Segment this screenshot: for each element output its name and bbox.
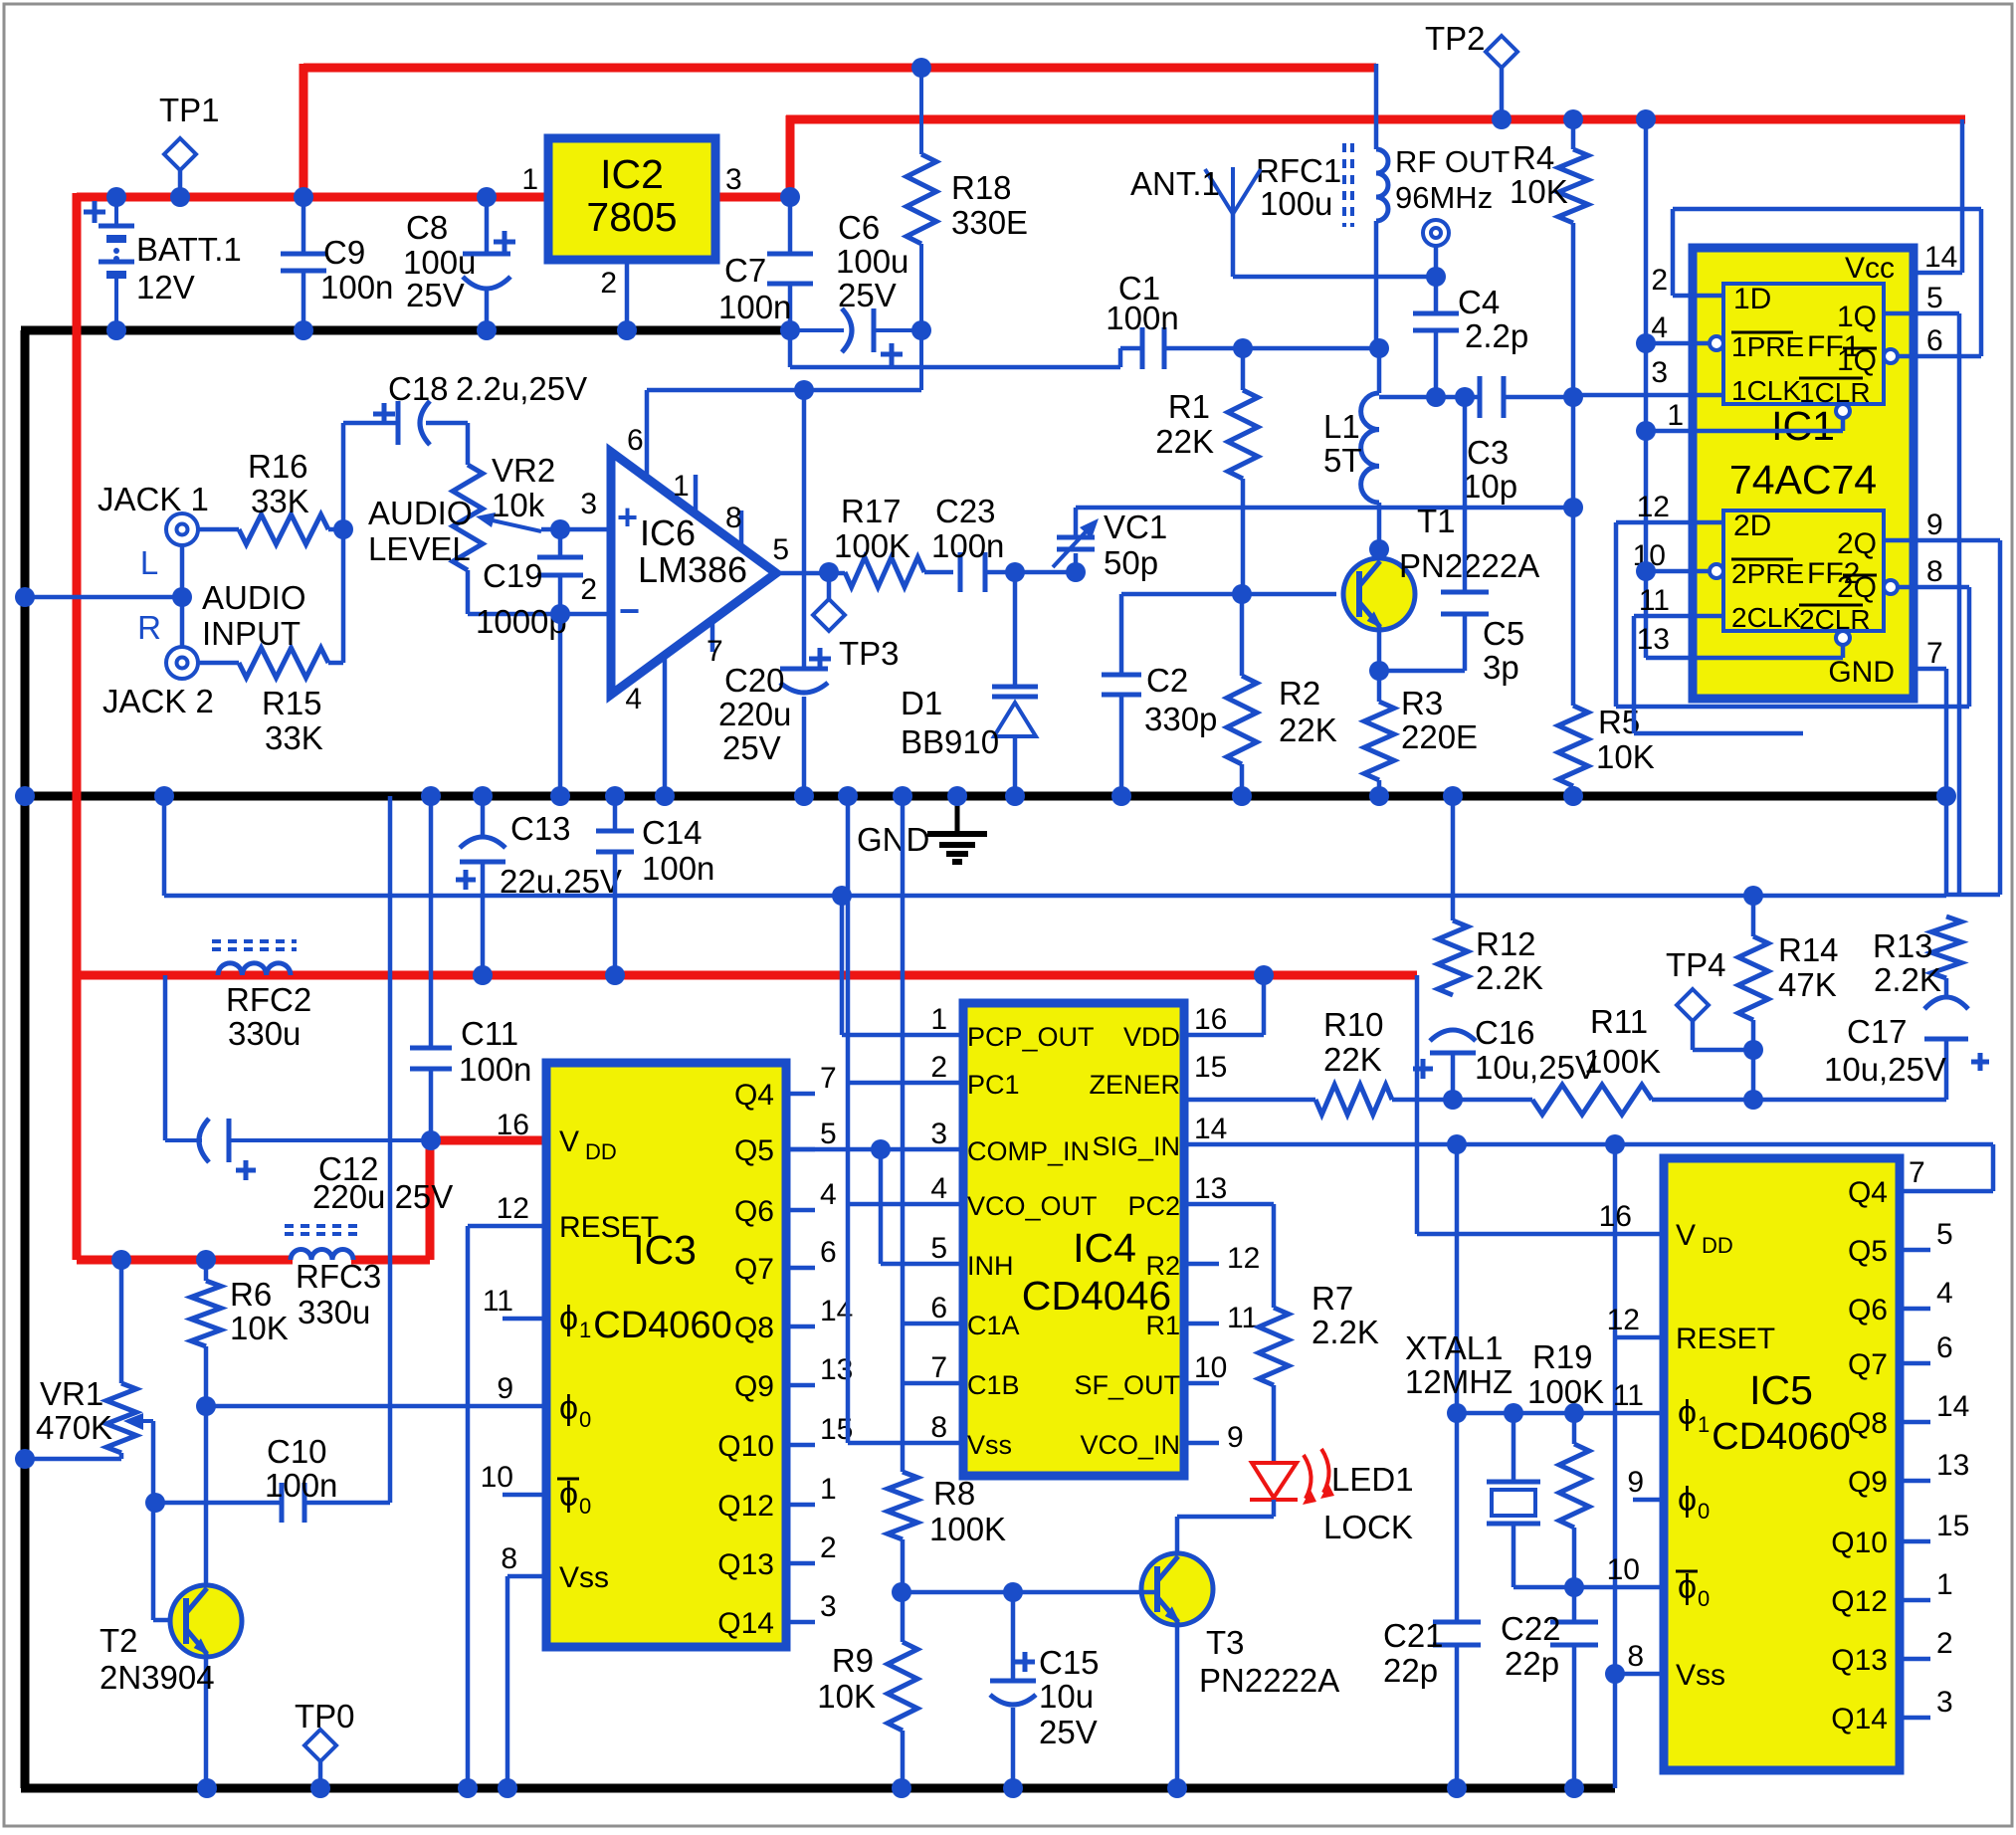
svg-text:8: 8 xyxy=(501,1542,517,1575)
svg-text:1CLK: 1CLK xyxy=(1731,375,1801,406)
svg-text:C10: C10 xyxy=(267,1433,327,1470)
svg-text:0: 0 xyxy=(579,1494,591,1519)
svg-text:Q5: Q5 xyxy=(734,1134,774,1167)
svg-text:D1: D1 xyxy=(901,685,942,721)
svg-text:XTAL1: XTAL1 xyxy=(1405,1329,1503,1366)
svg-text:13: 13 xyxy=(1194,1172,1227,1205)
svg-text:4: 4 xyxy=(820,1178,837,1211)
svg-text:100n: 100n xyxy=(931,527,1004,564)
svg-text:RF OUT: RF OUT xyxy=(1395,144,1510,179)
svg-text:25V: 25V xyxy=(406,277,465,313)
svg-text:16: 16 xyxy=(1599,1200,1632,1233)
svg-text:2.2u,25V: 2.2u,25V xyxy=(456,370,587,407)
svg-text:0: 0 xyxy=(1698,1499,1710,1524)
svg-text:C20: C20 xyxy=(724,662,785,699)
svg-text:1: 1 xyxy=(521,163,538,196)
svg-text:6: 6 xyxy=(1936,1331,1953,1364)
svg-text:10u,25V: 10u,25V xyxy=(1475,1049,1597,1086)
svg-text:GND: GND xyxy=(1828,656,1895,689)
svg-text:12: 12 xyxy=(497,1192,529,1225)
svg-text:R14: R14 xyxy=(1778,931,1839,968)
svg-text:2.2K: 2.2K xyxy=(1311,1314,1379,1350)
svg-text:R19: R19 xyxy=(1532,1338,1593,1375)
svg-text:L1: L1 xyxy=(1323,408,1360,445)
svg-text:GND: GND xyxy=(857,821,929,858)
svg-text:TP4: TP4 xyxy=(1666,946,1726,983)
svg-text:−: − xyxy=(619,590,640,631)
svg-text:Q8: Q8 xyxy=(734,1312,774,1344)
svg-text:100n: 100n xyxy=(459,1051,531,1088)
svg-text:Q4: Q4 xyxy=(734,1079,774,1112)
svg-text:R2: R2 xyxy=(1279,675,1320,712)
svg-text:INPUT: INPUT xyxy=(202,615,301,652)
svg-text:100u: 100u xyxy=(1260,185,1332,222)
svg-text:2CLR: 2CLR xyxy=(1799,604,1871,635)
svg-text:2.2K: 2.2K xyxy=(1874,961,1941,998)
svg-text:Q6: Q6 xyxy=(734,1195,774,1228)
svg-text:ϕ: ϕ xyxy=(559,1389,578,1427)
svg-text:Q10: Q10 xyxy=(1831,1527,1888,1559)
svg-text:220u,25V: 220u,25V xyxy=(312,1178,453,1215)
svg-text:CD4060: CD4060 xyxy=(593,1305,731,1346)
svg-text:4: 4 xyxy=(625,683,642,715)
svg-text:C4: C4 xyxy=(1458,284,1500,320)
svg-text:22p: 22p xyxy=(1383,1652,1438,1689)
svg-text:12: 12 xyxy=(1607,1304,1640,1336)
svg-text:9: 9 xyxy=(497,1372,513,1405)
svg-text:10K: 10K xyxy=(817,1678,876,1715)
svg-text:AUDIO: AUDIO xyxy=(368,495,473,531)
svg-text:2CLK: 2CLK xyxy=(1731,602,1801,633)
svg-text:330E: 330E xyxy=(951,204,1028,241)
svg-text:1: 1 xyxy=(930,1003,947,1036)
svg-text:C1B: C1B xyxy=(967,1370,1020,1400)
svg-text:3: 3 xyxy=(930,1118,947,1150)
svg-text:7: 7 xyxy=(1926,637,1943,670)
svg-text:C7: C7 xyxy=(724,252,766,289)
svg-text:LEVEL: LEVEL xyxy=(368,530,471,567)
svg-text:4: 4 xyxy=(930,1172,947,1205)
svg-text:10: 10 xyxy=(1607,1553,1640,1586)
svg-text:25V: 25V xyxy=(838,277,897,313)
svg-text:3p: 3p xyxy=(1483,649,1519,686)
svg-text:1CLR: 1CLR xyxy=(1799,377,1871,408)
svg-text:11: 11 xyxy=(1639,584,1670,617)
svg-text:R7: R7 xyxy=(1311,1280,1353,1317)
svg-text:5: 5 xyxy=(1926,282,1943,314)
svg-text:T2: T2 xyxy=(100,1622,138,1659)
svg-text:Q7: Q7 xyxy=(734,1253,774,1286)
svg-text:15: 15 xyxy=(1194,1051,1227,1084)
svg-text:C9: C9 xyxy=(323,234,365,271)
svg-text:3: 3 xyxy=(1651,356,1668,389)
svg-text:7: 7 xyxy=(1909,1156,1925,1189)
svg-text:R1: R1 xyxy=(1145,1311,1180,1340)
svg-text:Q7: Q7 xyxy=(1848,1348,1888,1381)
svg-text:2N3904: 2N3904 xyxy=(100,1659,215,1696)
svg-text:R9: R9 xyxy=(832,1642,874,1679)
svg-text:IC6: IC6 xyxy=(640,512,696,553)
svg-text:7: 7 xyxy=(706,635,723,668)
svg-text:Q13: Q13 xyxy=(717,1548,774,1581)
svg-text:0: 0 xyxy=(1698,1586,1710,1611)
svg-text:RESET: RESET xyxy=(1676,1323,1775,1355)
svg-text:Q6: Q6 xyxy=(1848,1294,1888,1326)
svg-text:11: 11 xyxy=(1227,1302,1258,1334)
svg-text:C19: C19 xyxy=(483,557,543,594)
svg-text:PN2222A: PN2222A xyxy=(1199,1662,1339,1699)
svg-text:PCP_OUT: PCP_OUT xyxy=(967,1022,1095,1052)
svg-text:Q13: Q13 xyxy=(1831,1644,1888,1677)
svg-text:16: 16 xyxy=(497,1109,529,1141)
svg-text:8: 8 xyxy=(930,1411,947,1444)
svg-text:2: 2 xyxy=(1936,1627,1953,1660)
svg-text:TP0: TP0 xyxy=(295,1698,355,1734)
svg-text:C3: C3 xyxy=(1467,434,1509,471)
svg-text:BATT.1: BATT.1 xyxy=(136,231,242,268)
svg-text:8: 8 xyxy=(1926,555,1943,588)
svg-text:12: 12 xyxy=(1637,491,1670,523)
svg-text:L: L xyxy=(140,544,158,581)
svg-text:1: 1 xyxy=(1698,1412,1710,1437)
svg-text:R12: R12 xyxy=(1476,925,1536,962)
svg-text:6: 6 xyxy=(1926,324,1943,357)
svg-text:220u: 220u xyxy=(718,696,791,732)
svg-text:Vss: Vss xyxy=(967,1430,1012,1460)
svg-text:33K: 33K xyxy=(265,719,323,756)
svg-text:2.2p: 2.2p xyxy=(1465,317,1528,354)
svg-text:Q9: Q9 xyxy=(1848,1466,1888,1499)
svg-text:13: 13 xyxy=(1637,623,1670,656)
svg-text:2: 2 xyxy=(1651,264,1668,297)
svg-text:1Q: 1Q xyxy=(1837,301,1877,333)
svg-text:C17: C17 xyxy=(1847,1013,1908,1050)
svg-text:Q4: Q4 xyxy=(1848,1176,1888,1209)
svg-text:PC1: PC1 xyxy=(967,1070,1020,1100)
svg-text:IC2: IC2 xyxy=(600,151,664,197)
svg-text:R15: R15 xyxy=(262,685,322,721)
svg-text:IC1: IC1 xyxy=(1771,403,1835,449)
svg-text:R17: R17 xyxy=(841,493,902,529)
svg-text:47K: 47K xyxy=(1778,966,1837,1003)
svg-text:R18: R18 xyxy=(951,169,1012,206)
svg-text:96MHz: 96MHz xyxy=(1395,180,1493,215)
svg-text:9: 9 xyxy=(1926,509,1943,541)
svg-text:C14: C14 xyxy=(642,814,703,851)
svg-text:VCO_OUT: VCO_OUT xyxy=(967,1191,1098,1221)
svg-text:COMP_IN: COMP_IN xyxy=(967,1136,1090,1166)
svg-text:RFC2: RFC2 xyxy=(226,981,311,1018)
svg-text:SF_OUT: SF_OUT xyxy=(1074,1370,1180,1400)
svg-text:ϕ: ϕ xyxy=(559,1476,578,1514)
svg-text:13: 13 xyxy=(1936,1449,1969,1482)
svg-text:16: 16 xyxy=(1194,1003,1227,1036)
svg-text:+: + xyxy=(617,497,638,537)
svg-text:Q9: Q9 xyxy=(734,1370,774,1403)
svg-text:1: 1 xyxy=(579,1318,591,1342)
svg-text:4: 4 xyxy=(1936,1277,1953,1310)
svg-text:330p: 330p xyxy=(1144,701,1217,737)
svg-text:5: 5 xyxy=(930,1232,947,1265)
svg-text:C13: C13 xyxy=(510,810,571,847)
svg-text:TP2: TP2 xyxy=(1425,20,1486,57)
svg-text:2D: 2D xyxy=(1733,510,1771,542)
svg-text:8: 8 xyxy=(1627,1640,1644,1673)
svg-text:C5: C5 xyxy=(1483,615,1524,652)
svg-text:7: 7 xyxy=(930,1351,947,1384)
svg-text:Q8: Q8 xyxy=(1848,1407,1888,1440)
svg-text:10p: 10p xyxy=(1463,468,1517,505)
svg-text:IC4: IC4 xyxy=(1073,1225,1136,1271)
svg-text:11: 11 xyxy=(1613,1379,1644,1412)
svg-text:14: 14 xyxy=(1194,1113,1227,1145)
svg-text:10K: 10K xyxy=(230,1310,289,1346)
svg-text:C18: C18 xyxy=(388,370,449,407)
svg-text:JACK 1: JACK 1 xyxy=(98,481,209,517)
svg-text:PC2: PC2 xyxy=(1127,1191,1180,1221)
svg-text:C2: C2 xyxy=(1146,662,1188,699)
svg-text:VDD: VDD xyxy=(1123,1022,1180,1052)
svg-text:C23: C23 xyxy=(935,493,996,529)
svg-text:R11: R11 xyxy=(1590,1003,1648,1040)
svg-text:LED1: LED1 xyxy=(1331,1461,1414,1498)
svg-text:ZENER: ZENER xyxy=(1089,1070,1180,1100)
svg-text:14: 14 xyxy=(1924,241,1957,274)
svg-text:22K: 22K xyxy=(1279,712,1337,748)
svg-text:V: V xyxy=(559,1125,579,1158)
svg-text:220E: 220E xyxy=(1401,718,1478,755)
svg-text:ϕ: ϕ xyxy=(1678,1568,1697,1606)
svg-text:10: 10 xyxy=(481,1461,513,1494)
svg-text:2: 2 xyxy=(580,573,597,606)
svg-text:12MHZ: 12MHZ xyxy=(1405,1363,1512,1400)
svg-text:1: 1 xyxy=(673,470,690,503)
svg-text:R1: R1 xyxy=(1168,388,1210,425)
svg-text:RESET: RESET xyxy=(559,1211,659,1244)
svg-text:R3: R3 xyxy=(1401,685,1443,721)
svg-text:ϕ: ϕ xyxy=(1678,1394,1697,1432)
svg-text:ϕ: ϕ xyxy=(559,1300,578,1337)
svg-text:C6: C6 xyxy=(838,209,880,246)
svg-text:100u: 100u xyxy=(836,243,908,280)
svg-text:330u: 330u xyxy=(228,1015,301,1052)
svg-text:3: 3 xyxy=(820,1590,837,1623)
svg-text:Q14: Q14 xyxy=(1831,1703,1888,1735)
svg-text:C15: C15 xyxy=(1039,1644,1100,1681)
svg-text:R8: R8 xyxy=(933,1475,975,1512)
svg-text:10: 10 xyxy=(1194,1351,1227,1384)
svg-text:JACK 2: JACK 2 xyxy=(102,683,214,719)
svg-text:Q10: Q10 xyxy=(717,1430,774,1463)
svg-text:14: 14 xyxy=(1936,1390,1969,1423)
svg-text:1: 1 xyxy=(1936,1568,1953,1601)
svg-text:10u,25V: 10u,25V xyxy=(1824,1051,1946,1088)
svg-text:10K: 10K xyxy=(1596,738,1655,775)
svg-text:C21: C21 xyxy=(1383,1617,1444,1654)
svg-text:9: 9 xyxy=(1627,1466,1644,1499)
svg-text:CD4060: CD4060 xyxy=(1712,1416,1850,1458)
svg-text:100K: 100K xyxy=(929,1511,1006,1547)
svg-text:7: 7 xyxy=(820,1062,837,1095)
svg-text:ANT.1: ANT.1 xyxy=(1130,165,1220,202)
svg-text:5: 5 xyxy=(772,533,789,566)
svg-text:100n: 100n xyxy=(265,1467,337,1504)
svg-text:2: 2 xyxy=(820,1531,837,1564)
svg-text:5: 5 xyxy=(820,1118,837,1150)
svg-text:50p: 50p xyxy=(1104,544,1158,581)
svg-text:RFC3: RFC3 xyxy=(296,1258,381,1295)
svg-text:2.2K: 2.2K xyxy=(1476,959,1543,996)
svg-text:ϕ: ϕ xyxy=(1678,1481,1697,1519)
svg-text:2PRE: 2PRE xyxy=(1731,558,1804,589)
svg-text:6: 6 xyxy=(820,1236,837,1269)
svg-text:C8: C8 xyxy=(406,209,448,246)
svg-text:5: 5 xyxy=(1936,1218,1953,1251)
svg-text:R13: R13 xyxy=(1873,927,1933,964)
svg-text:22K: 22K xyxy=(1155,423,1214,460)
svg-text:Q12: Q12 xyxy=(1831,1585,1888,1618)
svg-text:100u: 100u xyxy=(403,244,476,281)
svg-text:AUDIO: AUDIO xyxy=(202,579,306,616)
svg-text:Q14: Q14 xyxy=(717,1607,774,1640)
svg-text:1D: 1D xyxy=(1733,283,1771,315)
svg-text:SIG_IN: SIG_IN xyxy=(1092,1131,1180,1161)
svg-text:Q12: Q12 xyxy=(717,1490,774,1523)
svg-text:VR1: VR1 xyxy=(40,1375,103,1412)
svg-text:6: 6 xyxy=(627,424,644,457)
svg-text:V: V xyxy=(1676,1219,1696,1252)
svg-text:1: 1 xyxy=(1667,399,1684,432)
svg-text:TP1: TP1 xyxy=(159,92,220,128)
svg-text:VR2: VR2 xyxy=(492,452,555,489)
svg-text:22K: 22K xyxy=(1323,1041,1382,1078)
svg-text:C22: C22 xyxy=(1501,1610,1561,1647)
svg-text:2: 2 xyxy=(600,267,617,300)
svg-text:8: 8 xyxy=(725,502,742,534)
svg-text:15: 15 xyxy=(1936,1510,1969,1542)
svg-text:Vss: Vss xyxy=(559,1561,609,1594)
svg-text:Vcc: Vcc xyxy=(1845,252,1895,285)
svg-text:R2: R2 xyxy=(1145,1251,1180,1281)
svg-text:VC1: VC1 xyxy=(1104,509,1167,545)
svg-text:LM386: LM386 xyxy=(638,549,747,590)
svg-text:3: 3 xyxy=(580,488,597,520)
svg-text:9: 9 xyxy=(1227,1421,1244,1454)
svg-text:2Q: 2Q xyxy=(1837,527,1877,560)
svg-text:Q5: Q5 xyxy=(1848,1235,1888,1268)
svg-text:INH: INH xyxy=(967,1251,1014,1281)
svg-text:R16: R16 xyxy=(248,448,308,485)
svg-text:25V: 25V xyxy=(1039,1714,1098,1750)
svg-text:DD: DD xyxy=(585,1139,617,1164)
svg-text:LOCK: LOCK xyxy=(1323,1509,1413,1545)
svg-text:C1A: C1A xyxy=(967,1311,1020,1340)
svg-text:74AC74: 74AC74 xyxy=(1729,457,1877,503)
svg-text:10k: 10k xyxy=(492,487,545,523)
svg-text:1: 1 xyxy=(820,1473,837,1506)
svg-text:R: R xyxy=(137,609,161,646)
svg-text:100n: 100n xyxy=(718,289,791,325)
svg-text:DD: DD xyxy=(1702,1233,1733,1258)
svg-text:R4: R4 xyxy=(1512,139,1554,176)
svg-text:5T: 5T xyxy=(1323,442,1362,479)
svg-text:TP3: TP3 xyxy=(839,635,900,672)
svg-text:6: 6 xyxy=(930,1292,947,1325)
svg-text:25V: 25V xyxy=(722,729,781,766)
svg-text:2: 2 xyxy=(930,1051,947,1084)
svg-text:12V: 12V xyxy=(136,269,195,306)
svg-text:100n: 100n xyxy=(1106,300,1178,336)
svg-text:R10: R10 xyxy=(1323,1006,1384,1043)
svg-text:R6: R6 xyxy=(230,1276,272,1313)
svg-text:3: 3 xyxy=(1936,1686,1953,1719)
svg-text:C11: C11 xyxy=(461,1015,518,1052)
svg-text:3: 3 xyxy=(725,163,742,196)
svg-text:T1: T1 xyxy=(1417,503,1456,539)
svg-text:VCO_IN: VCO_IN xyxy=(1080,1430,1180,1460)
svg-text:10K: 10K xyxy=(1510,173,1568,210)
svg-text:11: 11 xyxy=(483,1285,513,1318)
svg-text:IC5: IC5 xyxy=(1749,1367,1813,1413)
svg-text:100K: 100K xyxy=(834,527,910,564)
svg-text:470K: 470K xyxy=(36,1409,112,1446)
svg-text:1PRE: 1PRE xyxy=(1731,331,1804,362)
svg-text:T3: T3 xyxy=(1206,1624,1245,1661)
svg-text:22p: 22p xyxy=(1505,1645,1559,1682)
svg-text:0: 0 xyxy=(579,1407,591,1432)
svg-text:PN2222A: PN2222A xyxy=(1399,547,1539,584)
svg-text:Vss: Vss xyxy=(1676,1659,1725,1692)
svg-text:100n: 100n xyxy=(320,269,393,306)
svg-text:RFC1: RFC1 xyxy=(1256,152,1341,189)
svg-text:BB910: BB910 xyxy=(901,723,999,760)
svg-text:100n: 100n xyxy=(642,850,714,887)
svg-text:C16: C16 xyxy=(1475,1014,1535,1051)
svg-text:7805: 7805 xyxy=(586,194,677,240)
svg-text:100K: 100K xyxy=(1527,1373,1604,1410)
svg-text:330u: 330u xyxy=(298,1294,370,1330)
svg-text:10u: 10u xyxy=(1039,1678,1094,1715)
svg-text:12: 12 xyxy=(1227,1242,1260,1275)
svg-text:33K: 33K xyxy=(251,483,309,519)
